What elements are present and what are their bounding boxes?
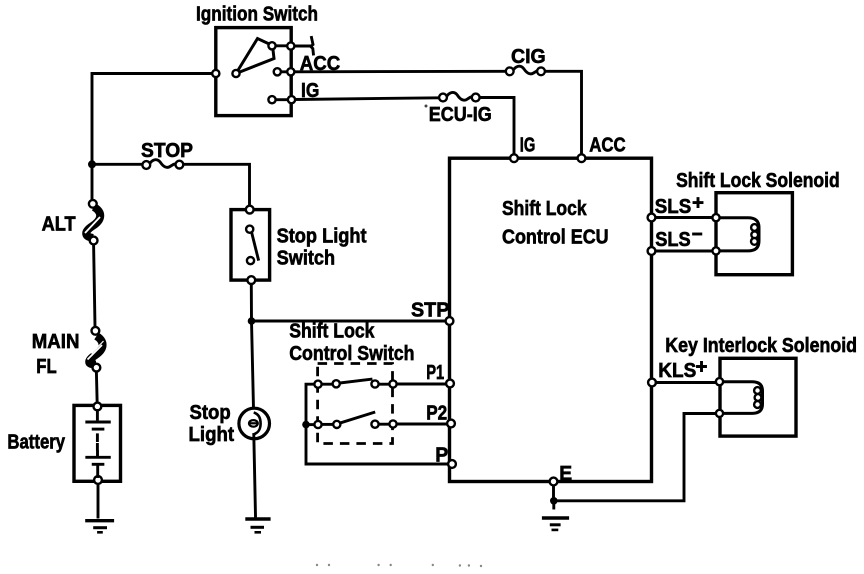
svg-text:Key Interlock Solenoid: Key Interlock Solenoid [665, 334, 857, 357]
svg-text:STP: STP [411, 299, 449, 322]
svg-text:SLS: SLS [655, 228, 690, 251]
svg-text:MAIN: MAIN [32, 330, 80, 353]
svg-text:CIG: CIG [511, 45, 546, 68]
svg-text:E: E [559, 462, 572, 485]
svg-text:KLS: KLS [658, 359, 696, 382]
svg-text:FL: FL [36, 355, 56, 378]
svg-text:STOP: STOP [141, 139, 193, 162]
svg-text:P2: P2 [426, 402, 447, 425]
svg-text:Switch: Switch [277, 247, 336, 270]
svg-text:IG: IG [520, 134, 536, 157]
svg-text:Control Switch: Control Switch [289, 342, 414, 365]
svg-text:Ignition Switch: Ignition Switch [196, 3, 318, 26]
svg-text:IG: IG [301, 79, 319, 102]
svg-text:Shift Lock Solenoid: Shift Lock Solenoid [676, 169, 840, 192]
svg-text:Light: Light [189, 423, 235, 446]
svg-text:ACC: ACC [589, 134, 626, 157]
svg-text:Shift Lock: Shift Lock [289, 320, 375, 343]
svg-text:Stop: Stop [190, 401, 231, 424]
svg-text:P1: P1 [426, 361, 444, 384]
svg-text:SLS: SLS [655, 195, 691, 218]
svg-text:Stop Light: Stop Light [277, 224, 367, 247]
svg-text:P: P [435, 444, 448, 467]
svg-text:ACC: ACC [300, 52, 341, 75]
svg-text:Shift Lock: Shift Lock [502, 197, 587, 220]
svg-text:Control ECU: Control ECU [502, 225, 609, 248]
svg-text:ALT: ALT [42, 212, 76, 235]
svg-text:ECU-IG: ECU-IG [429, 103, 492, 126]
svg-text:Battery: Battery [7, 431, 65, 454]
